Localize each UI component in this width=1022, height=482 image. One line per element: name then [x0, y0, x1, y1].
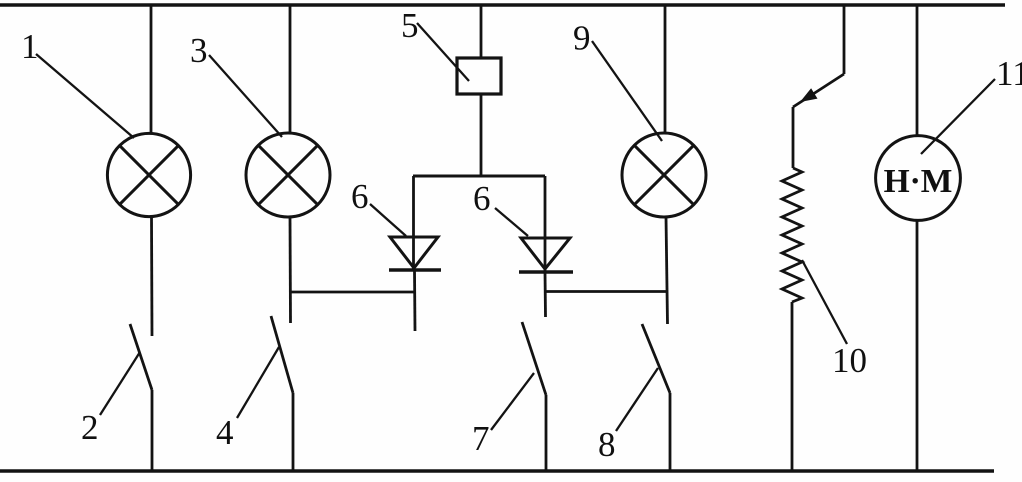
wire switch 8 to bottom bus: [669, 393, 672, 471]
svg-text:8: 8: [598, 425, 616, 464]
switch 4 blade: [271, 316, 293, 393]
wire relay 5 to diode rail: [480, 94, 483, 176]
wire diode rail horizontal: [413, 175, 545, 178]
lamp 1 (indicator lamp, circle with cross): [107, 133, 190, 216]
leader line for label 8: [616, 368, 658, 431]
wire rail to diode 6 (right): [544, 176, 547, 272]
tap arrowhead: [800, 88, 818, 102]
svg-text:7: 7: [472, 419, 490, 458]
switch 8 blade: [642, 324, 670, 393]
wire arrow to resistor 10: [792, 107, 795, 168]
svg-text:Н·М: Н·М: [884, 163, 953, 200]
lamp 9 (indicator lamp, circle with cross): [622, 133, 706, 217]
svg-text:1: 1: [21, 27, 39, 66]
relay coil 5 (rectangle): [457, 58, 501, 94]
diode 6 (left): [389, 237, 441, 270]
wire lamp1 to switch 2: [150, 217, 153, 337]
wire branch2 top (bus to lamp 3): [289, 5, 292, 134]
svg-text:6: 6: [473, 179, 491, 218]
wire switch 2 to bottom bus: [151, 390, 154, 471]
wire switch 4 to bottom bus: [292, 393, 295, 471]
wire node row left segment: [290, 291, 415, 294]
leader line for label 2: [100, 352, 140, 415]
wire branch1 top (bus to lamp 1): [150, 5, 153, 134]
switch 7 blade: [522, 322, 546, 395]
wire lamp 9 down to switch 8 (through node): [666, 217, 668, 324]
tap arrow slant wire: [793, 74, 844, 107]
diode 6 (right): [519, 238, 573, 272]
svg-text:3: 3: [190, 31, 208, 70]
wire node row right segment: [546, 290, 667, 293]
svg-text:2: 2: [81, 408, 99, 447]
top bus wire: [0, 3, 1005, 7]
svg-text:9: 9: [573, 19, 591, 58]
leader line for label 9: [592, 41, 662, 141]
leader line for label 6 left: [370, 204, 406, 236]
wire branch lamp 9 top: [664, 5, 667, 133]
leader line for label 6 right: [495, 208, 528, 236]
wire motor 11 to bottom bus: [916, 220, 919, 471]
wire lamp3 down to switch 4 (through node): [289, 218, 292, 324]
leader line for label 4: [237, 347, 279, 418]
resistor 10 (zigzag): [782, 168, 802, 302]
wire switch 7 to bottom bus: [545, 395, 548, 471]
wire diode 6 right down to switch 7: [544, 272, 547, 317]
svg-text:4: 4: [216, 413, 234, 452]
wire resistor 10 to bottom bus: [791, 302, 794, 471]
lamp 3 (indicator lamp, circle with cross): [246, 133, 330, 217]
leader line for label 7: [491, 373, 534, 430]
leader line for label 3: [209, 55, 282, 137]
wire rail to diode 6 (left): [412, 176, 415, 270]
wire bus to motor 11: [916, 5, 919, 136]
svg-text:6: 6: [351, 177, 369, 216]
leader line for label 11: [921, 79, 995, 154]
leader line for label 5: [417, 23, 469, 81]
leader line for label 1: [36, 54, 134, 138]
wire bus to relay 5: [480, 5, 483, 58]
switch 2 blade: [130, 324, 152, 390]
bottom bus wire: [0, 469, 994, 473]
svg-text:5: 5: [401, 6, 419, 45]
wire below diode 6 left (stub past node): [413, 270, 416, 331]
svg-text:10: 10: [832, 341, 867, 380]
leader line for label 10: [802, 260, 847, 344]
motor 11 (circle with H-M): [876, 136, 961, 221]
svg-text:11: 11: [996, 54, 1022, 93]
wire bus to tap arrow: [843, 5, 846, 74]
